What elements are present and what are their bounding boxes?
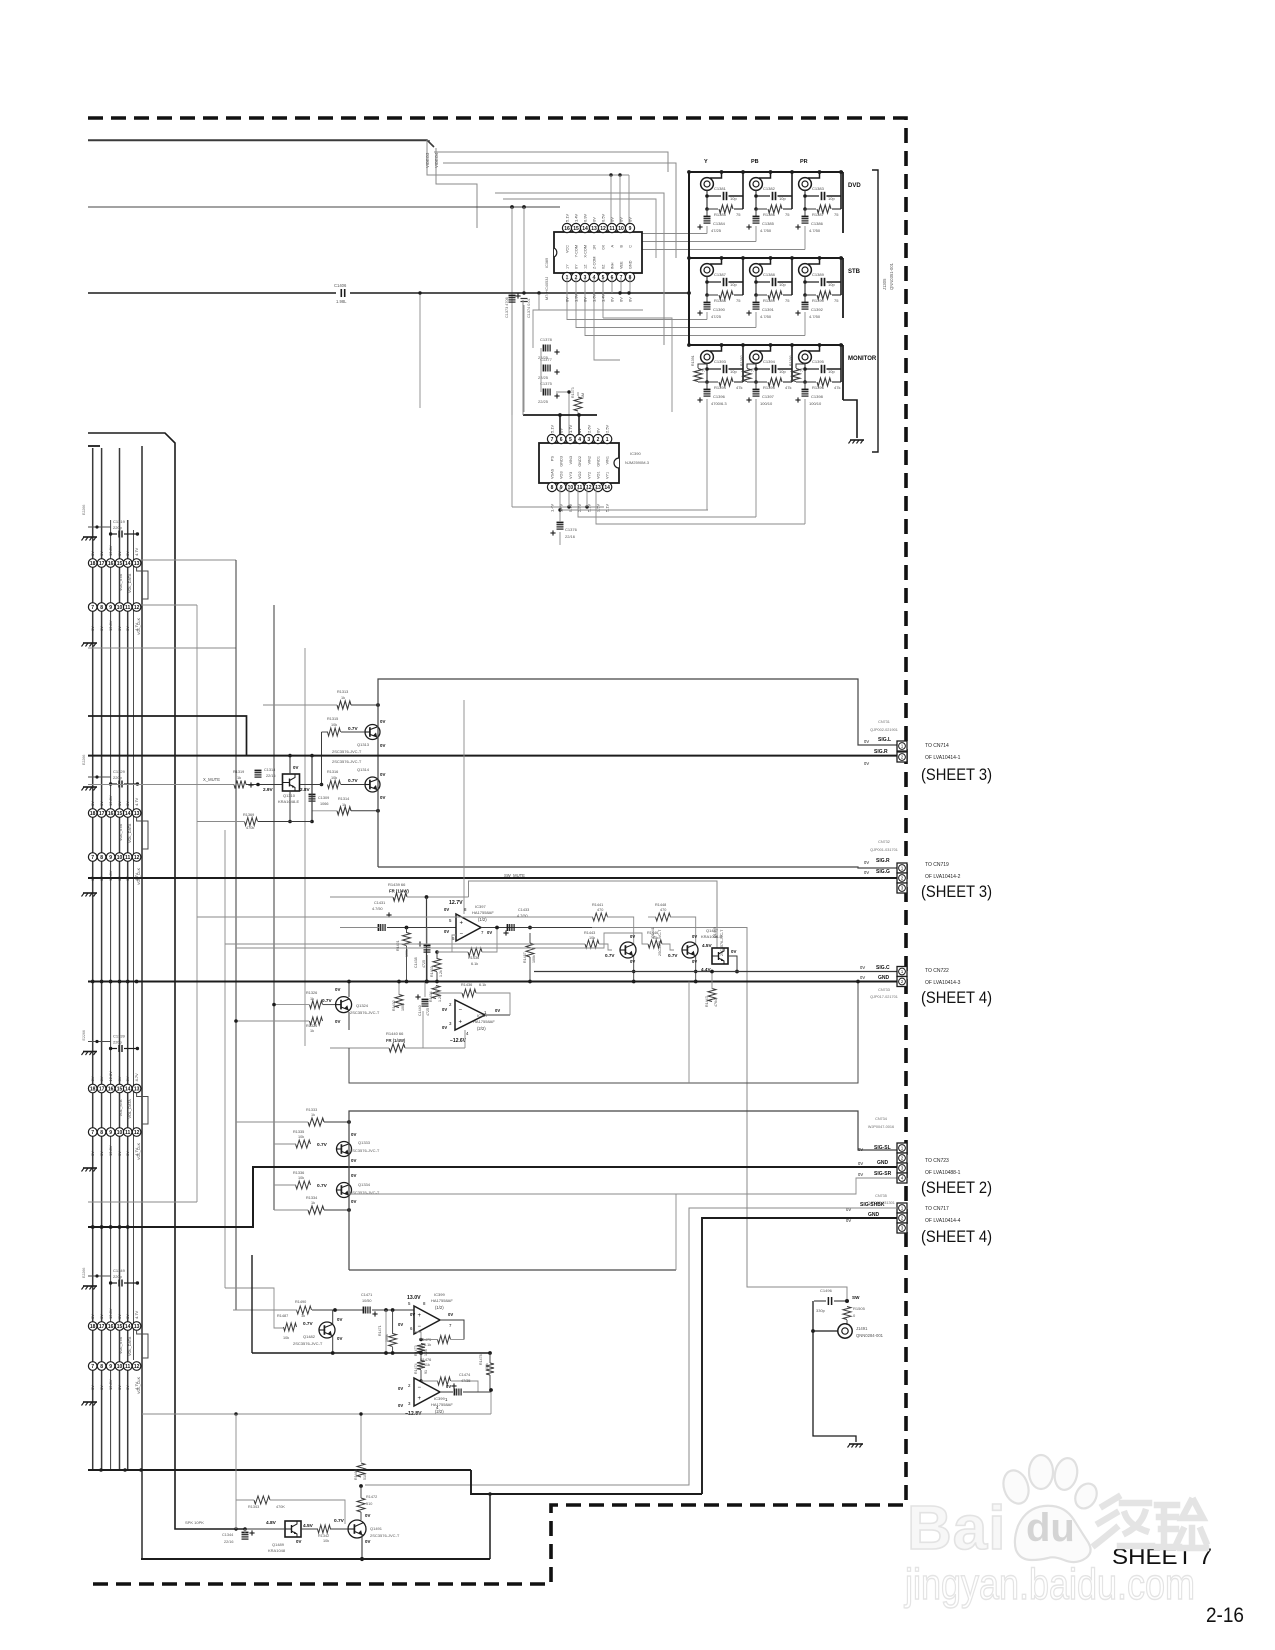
wire SW_MUTE net — [469, 881, 718, 948]
svg-text:2-16: 2-16 — [1206, 1603, 1244, 1627]
svg-text:220p: 220p — [113, 775, 123, 780]
svg-text:13: 13 — [134, 1324, 140, 1330]
svg-text:2.8V: 2.8V — [300, 787, 311, 792]
svg-text:47/25: 47/25 — [711, 228, 722, 233]
capacitor C1440 — [415, 994, 430, 1016]
op-amp IC397-1 — [456, 914, 481, 941]
connector MONITOR PR jack — [789, 343, 843, 524]
wire r1441 net — [197, 917, 634, 944]
wire q1324 wires — [272, 982, 349, 1031]
junction — [811, 1329, 815, 1333]
wire bus h648 — [88, 647, 236, 649]
capacitor C1318 — [248, 768, 275, 788]
wire r1448 net — [648, 917, 696, 944]
svg-text:12.8V: 12.8V — [108, 1145, 113, 1156]
wire q1334 out — [349, 1178, 898, 1270]
svg-text:4764: 4764 — [714, 999, 718, 1007]
label SIG-SL — [858, 1145, 891, 1152]
svg-text:0V: 0V — [610, 217, 615, 222]
svg-text:R1440 66: R1440 66 — [386, 1031, 404, 1036]
svg-text:C1385: C1385 — [762, 221, 775, 226]
op-amp IC389 pins — [562, 213, 634, 302]
svg-text:VOL_DATA: VOL_DATA — [128, 573, 132, 593]
wire vbus left — [522, 300, 524, 415]
svg-text:17: 17 — [99, 811, 105, 817]
svg-text:1.2k: 1.2k — [439, 970, 443, 977]
svg-text:0V: 0V — [860, 965, 865, 970]
svg-text:100/10: 100/10 — [809, 401, 822, 406]
svg-text:HA17558AF: HA17558AF — [431, 1298, 453, 1303]
svg-text:0V: 0V — [335, 1019, 340, 1024]
svg-text:0V: 0V — [380, 795, 385, 800]
svg-text:VY1: VY1 — [606, 472, 610, 479]
svg-text:GND2: GND2 — [578, 456, 582, 467]
connector STB Y jack — [697, 256, 744, 319]
svg-text:0V: 0V — [337, 1317, 342, 1322]
svg-text:0V: 0V — [410, 1312, 415, 1317]
resistor R1324 — [306, 1017, 323, 1033]
svg-text:R1369: R1369 — [243, 813, 254, 817]
junction — [359, 1484, 363, 1488]
svg-text:VIDEO3: VIDEO3 — [425, 152, 430, 168]
svg-text:2SC3576-JVC-T: 2SC3576-JVC-T — [332, 759, 362, 764]
label 0.7V q1334 — [317, 1183, 328, 1189]
svg-text:91: 91 — [424, 1370, 428, 1374]
svg-text:R1313: R1313 — [337, 690, 348, 694]
wire signal box1 — [378, 679, 897, 867]
label SW_MUTE — [504, 873, 525, 878]
svg-text:10k: 10k — [331, 723, 337, 727]
connector CN733 — [897, 967, 907, 987]
svg-text:C1318: C1318 — [264, 768, 275, 772]
svg-text:R1373: R1373 — [571, 387, 575, 398]
wire r1316 leads — [328, 784, 365, 786]
wire q1447 out — [728, 956, 739, 973]
wire bus v197 — [88, 605, 197, 1202]
wire AV bus right — [350, 292, 689, 294]
resistor R1343 — [248, 1496, 285, 1509]
svg-text:12.8V: 12.8V — [108, 545, 113, 556]
junction — [347, 1120, 351, 1124]
svg-text:R1390: R1390 — [812, 298, 825, 303]
svg-text:R1471: R1471 — [378, 1325, 382, 1336]
wire headphone net — [592, 928, 847, 1302]
svg-text:0V: 0V — [864, 870, 869, 875]
label IC399-1 — [431, 1292, 453, 1310]
wire AV bus left — [88, 292, 336, 294]
wire bus v142 — [141, 446, 143, 1559]
capacitor C1374 — [521, 298, 532, 318]
junction bus-gnd — [91, 980, 139, 984]
svg-text:0V: 0V — [398, 1386, 403, 1391]
wire vbus drop1 — [559, 415, 561, 435]
svg-text:0V: 0V — [99, 1076, 104, 1081]
svg-text:10k: 10k — [298, 1135, 304, 1139]
label pins op399-1 — [408, 1301, 452, 1331]
wire supply rail — [252, 1255, 490, 1353]
svg-text:10: 10 — [117, 1364, 123, 1370]
label SPK 10PK — [185, 1520, 204, 1525]
svg-text:10: 10 — [117, 605, 123, 611]
wire r1476 link — [421, 1381, 478, 1392]
resistor R1314 — [337, 797, 351, 815]
svg-text:0V: 0V — [630, 959, 635, 964]
svg-text:0.7V: 0.7V — [322, 998, 333, 1003]
svg-text:510: 510 — [363, 1474, 367, 1480]
wire op399-2 out — [440, 1391, 453, 1393]
svg-text:0V: 0V — [858, 1172, 863, 1177]
wire q1334 wires — [348, 1167, 350, 1210]
resistor R1437 — [523, 943, 536, 963]
svg-text:C1396: C1396 — [713, 394, 726, 399]
label 0V — [864, 761, 869, 766]
wire njm out bus — [512, 310, 643, 507]
connector VOL group C1339 — [82, 1030, 149, 1171]
svg-text:0V: 0V — [90, 1076, 95, 1081]
transistor Q1333 — [337, 1142, 352, 1157]
svg-text:Y-COM: Y-COM — [575, 245, 579, 257]
wire bus h560 — [137, 559, 236, 561]
resistor R1487 — [277, 1314, 297, 1340]
svg-text:Q1482: Q1482 — [303, 1334, 316, 1339]
svg-text:13: 13 — [134, 811, 140, 817]
svg-text:−: − — [460, 931, 464, 937]
label Q1313 — [332, 742, 370, 754]
capacitor C1438 — [414, 941, 431, 968]
svg-text:C1383: C1383 — [812, 186, 825, 191]
resistor R1471 — [378, 1325, 397, 1346]
wire r1373 link — [577, 392, 579, 415]
wire q1489 out — [301, 1528, 348, 1530]
junction — [489, 1388, 493, 1392]
wire op1 out — [481, 926, 540, 930]
svg-text:11: 11 — [125, 855, 131, 861]
wire fb399b — [414, 1332, 421, 1340]
connector VOL group C1329 — [82, 755, 149, 897]
svg-text:0.7V: 0.7V — [303, 1321, 314, 1326]
resistor R1313 — [337, 690, 351, 709]
svg-text:GND3: GND3 — [560, 456, 564, 467]
svg-text:1.2k: 1.2k — [438, 995, 442, 1002]
svg-text:0V: 0V — [444, 929, 449, 934]
svg-text:510: 510 — [366, 1502, 372, 1506]
wire SIG-SL-GND — [88, 1167, 897, 1227]
wire mute gnd drop — [426, 897, 428, 981]
svg-text:1k: 1k — [311, 1201, 315, 1205]
svg-text:4.7/50: 4.7/50 — [760, 314, 772, 319]
svg-text:STB: STB — [848, 269, 861, 275]
svg-text:47/35: 47/35 — [461, 1379, 471, 1383]
wire njm right2 — [578, 487, 756, 517]
svg-text:6.1k: 6.1k — [424, 1343, 431, 1347]
svg-text:QNN0284-001: QNN0284-001 — [856, 1333, 884, 1338]
svg-text:R1432: R1432 — [392, 1000, 396, 1011]
svg-text:SIG-SL: SIG-SL — [874, 1145, 891, 1151]
svg-text:220p: 220p — [113, 1274, 123, 1279]
svg-text:R1448: R1448 — [655, 903, 666, 907]
svg-text:75: 75 — [785, 298, 790, 303]
wire bus v225 — [224, 830, 226, 1288]
connector DVD PB jack — [746, 170, 793, 241]
svg-text:5: 5 — [569, 437, 572, 443]
svg-text:0V: 0V — [337, 1336, 342, 1341]
svg-text:7: 7 — [91, 1130, 94, 1136]
wire njm right3 — [596, 487, 805, 524]
svg-text:11: 11 — [125, 1364, 131, 1370]
node VIDEO3 bend — [427, 140, 629, 175]
svg-text:0V: 0V — [99, 801, 104, 806]
junction — [347, 980, 697, 984]
label SIG.L — [864, 737, 891, 744]
wire bus vertical — [92, 448, 94, 1470]
wire bottom heavy — [141, 1558, 490, 1560]
svg-text:SIG-SHBK: SIG-SHBK — [860, 1202, 885, 1208]
svg-text:0.7V: 0.7V — [317, 1142, 328, 1148]
svg-text:1k: 1k — [311, 1113, 315, 1117]
svg-text:VOL_CLK: VOL_CLK — [137, 867, 141, 885]
label 0V q1334 — [351, 1173, 356, 1204]
svg-text:VOL_DATA: VOL_DATA — [128, 1336, 132, 1356]
svg-text:QJP017-021701: QJP017-021701 — [870, 995, 898, 999]
svg-text:C1373 4706: C1373 4706 — [505, 297, 509, 318]
svg-text:Q1441: Q1441 — [651, 927, 655, 938]
label SIG.G — [864, 869, 890, 875]
svg-text:SPK 10PK: SPK 10PK — [185, 1520, 204, 1525]
label VIDEO4 — [434, 152, 439, 168]
svg-text:1k: 1k — [310, 997, 314, 1001]
wire monitor gnd arm — [843, 400, 857, 438]
wire xmute2 — [246, 784, 282, 786]
svg-text:4: 4 — [578, 437, 581, 443]
svg-text:18: 18 — [90, 811, 96, 817]
label VIDEO3 — [425, 152, 430, 168]
label Q1334 — [350, 1182, 380, 1195]
resistor R1478 — [479, 1354, 494, 1375]
svg-text:2SC3576-JVC-T: 2SC3576-JVC-T — [370, 1533, 400, 1538]
svg-text:R1490: R1490 — [295, 1300, 306, 1304]
svg-text:13: 13 — [591, 226, 597, 232]
svg-text:QNN0351-001: QNN0351-001 — [889, 262, 894, 290]
svg-text:HA17558AF: HA17558AF — [472, 910, 494, 915]
wire to r1466 — [142, 1392, 491, 1462]
svg-text:6: 6 — [560, 437, 563, 443]
wire pin drop — [602, 277, 604, 318]
svg-text:+: + — [459, 1020, 463, 1026]
svg-text:SIG.L: SIG.L — [878, 737, 891, 743]
svg-text:TO CN722: TO CN722 — [925, 968, 949, 974]
wire MONITOR bus — [689, 344, 843, 346]
junction — [510, 205, 514, 209]
capacitor C1406 — [341, 289, 344, 297]
label CN733 sig — [860, 965, 890, 971]
label IC389 — [545, 258, 549, 300]
svg-text:4.8V: 4.8V — [266, 1520, 277, 1526]
svg-text:C1381: C1381 — [714, 186, 727, 191]
svg-text:INH: INH — [611, 262, 615, 269]
svg-text:0V: 0V — [380, 719, 385, 724]
svg-text:R1388: R1388 — [714, 298, 727, 303]
svg-text:Y: Y — [704, 159, 708, 165]
svg-text:R1336: R1336 — [293, 1171, 304, 1175]
svg-text:R1447: R1447 — [705, 996, 709, 1007]
wire drop — [511, 207, 513, 507]
svg-text:Q1491: Q1491 — [370, 1526, 383, 1531]
svg-text:16: 16 — [108, 1086, 114, 1092]
svg-text:10k: 10k — [298, 1176, 304, 1180]
wire njm down1 — [568, 487, 570, 507]
svg-text:R1433: R1433 — [430, 966, 434, 977]
svg-text:R1393: R1393 — [789, 355, 793, 366]
wire fb2 — [482, 928, 497, 953]
wire SIG-C — [534, 971, 897, 973]
wire r1437 — [529, 933, 531, 981]
svg-text:0V: 0V — [117, 626, 122, 631]
op-amp IC399-1 — [414, 1306, 440, 1334]
svg-text:2SC3576-JVC-T: 2SC3576-JVC-T — [350, 1148, 380, 1153]
svg-text:CN733: CN733 — [878, 988, 890, 992]
svg-text:C1378: C1378 — [540, 337, 553, 342]
svg-text:7: 7 — [91, 855, 94, 861]
wire r1439 leads — [330, 896, 469, 898]
svg-text:10p: 10p — [730, 282, 737, 287]
svg-text:12.8V: 12.8V — [108, 870, 113, 881]
svg-text:16: 16 — [108, 561, 114, 567]
wire r1505 — [846, 1320, 848, 1325]
svg-text:470k: 470k — [246, 826, 254, 830]
resistor R1466 — [354, 1463, 367, 1480]
label SHEET3b — [921, 883, 992, 901]
label TO CN714 — [925, 743, 961, 761]
svg-text:0V: 0V — [559, 428, 564, 433]
svg-text:R1396: R1396 — [812, 385, 825, 390]
label J1491 — [856, 1326, 884, 1338]
svg-text:0V: 0V — [90, 1314, 95, 1319]
svg-text:0V: 0V — [380, 772, 385, 777]
wire vcc drop2 — [512, 293, 541, 412]
svg-text:C1438: C1438 — [414, 957, 418, 968]
wire left bus entry2 — [88, 445, 100, 447]
svg-text:GND: GND — [877, 1160, 889, 1166]
resistor R1326 — [306, 991, 323, 1009]
transistor Q1489 — [285, 1521, 301, 1537]
svg-text:1Z: 1Z — [584, 264, 588, 269]
svg-text:R1472: R1472 — [366, 1495, 377, 1499]
wire right spine — [842, 172, 844, 400]
svg-text:OF LVA10488-1: OF LVA10488-1 — [925, 1170, 961, 1176]
svg-text:0V: 0V — [380, 743, 385, 748]
svg-text:10: 10 — [568, 485, 574, 491]
svg-text:8: 8 — [100, 605, 103, 611]
svg-text:TO CN714: TO CN714 — [925, 743, 949, 749]
svg-text:5.1V: 5.1V — [550, 424, 555, 433]
svg-text:C1406: C1406 — [334, 283, 347, 288]
svg-text:16: 16 — [108, 811, 114, 817]
label TO CN719 — [925, 862, 961, 880]
wire mesh h4 — [503, 199, 656, 258]
wire IC390 vbus — [523, 414, 597, 416]
svg-text:VOL_STB: VOL_STB — [119, 1099, 123, 1117]
wire av drop — [418, 291, 421, 408]
svg-text:R1315: R1315 — [327, 717, 338, 721]
wire -12.6V rail — [330, 1011, 465, 1048]
svg-text:0V: 0V — [442, 1025, 447, 1030]
svg-text:1.6V: 1.6V — [592, 293, 597, 302]
op-amp IC397-2 — [455, 1000, 485, 1030]
svg-text:1.4V: 1.4V — [601, 293, 606, 302]
svg-text:C1440: C1440 — [418, 1005, 422, 1016]
wire njm right — [560, 509, 708, 511]
svg-text:10p: 10p — [779, 196, 786, 201]
svg-text:0.7V: 0.7V — [334, 1518, 345, 1524]
svg-text:VY2: VY2 — [587, 472, 591, 479]
svg-text:10p: 10p — [779, 369, 786, 374]
label 0.7V q1324 — [322, 998, 333, 1003]
wire vbus drop2 — [578, 415, 580, 435]
svg-text:220p: 220p — [113, 525, 123, 530]
svg-text:R1394: R1394 — [714, 385, 727, 390]
wire njm down2 — [586, 487, 588, 507]
svg-text:VO3: VO3 — [560, 471, 564, 479]
label 0V — [380, 719, 385, 748]
svg-text:1k: 1k — [301, 1314, 305, 1318]
watermark baidu-jingyan — [903, 1455, 1206, 1609]
svg-text:Q1314: Q1314 — [357, 767, 370, 772]
wire c1438 — [426, 928, 428, 982]
svg-text:VIN1: VIN1 — [606, 456, 610, 464]
svg-text:17: 17 — [99, 1086, 105, 1092]
svg-text:4725: 4725 — [422, 960, 426, 968]
svg-text:7: 7 — [551, 437, 554, 443]
svg-text:0Z: 0Z — [602, 264, 606, 269]
label 0V q1324 — [335, 987, 340, 1024]
svg-text:0V: 0V — [860, 975, 865, 980]
label Q1491 — [370, 1526, 400, 1538]
svg-text:4725: 4725 — [426, 1008, 430, 1016]
connector CN735 — [897, 1203, 907, 1233]
label 0V op399-2 — [398, 1384, 451, 1408]
wire c1344 — [244, 1529, 246, 1533]
wire group spine — [688, 172, 690, 345]
svg-text:−12.6V: −12.6V — [450, 1038, 467, 1044]
svg-text:0.7V: 0.7V — [348, 778, 359, 783]
svg-text:0V: 0V — [125, 1314, 130, 1319]
svg-text:0V: 0V — [596, 428, 601, 433]
svg-text:−: − — [418, 1324, 422, 1330]
svg-text:3: 3 — [587, 437, 590, 443]
wire r1478 leads — [489, 1353, 491, 1389]
wire r1443 lead — [225, 944, 612, 950]
resistor R1319 — [233, 770, 246, 789]
svg-text:0V: 0V — [99, 1385, 104, 1390]
connector J1305 bracket — [872, 170, 878, 452]
svg-text:Q1324: Q1324 — [356, 1003, 369, 1008]
svg-text:470: 470 — [660, 908, 666, 912]
svg-text:16: 16 — [564, 226, 570, 232]
svg-text:1R: 1R — [593, 245, 597, 250]
junction — [331, 1351, 492, 1355]
label CN734 — [868, 1117, 894, 1129]
svg-text:12: 12 — [134, 1130, 140, 1136]
wire c1474 out — [463, 1391, 491, 1393]
label 4.8V — [266, 1520, 277, 1526]
connector MONITOR PB jack — [740, 343, 794, 517]
wire cap link — [556, 392, 569, 436]
svg-text:OF LVA10414-1: OF LVA10414-1 — [925, 755, 961, 761]
svg-text:(2/2): (2/2) — [435, 1409, 444, 1414]
svg-text:VOL_STB: VOL_STB — [119, 1336, 123, 1354]
label SHEET4b — [921, 1228, 992, 1246]
wire sig feed jog — [88, 716, 247, 756]
